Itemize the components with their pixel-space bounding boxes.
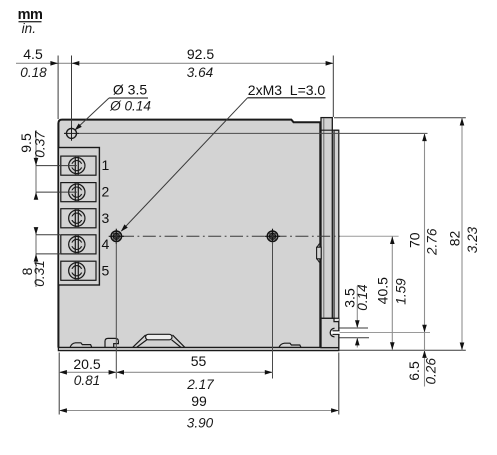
screw 3 [69, 209, 85, 227]
hole M3 right drop line [272, 242, 274, 379]
dim 82 [461, 118, 463, 350]
svg-text:3.64: 3.64 [187, 65, 214, 80]
extension line hole H0 [71, 56, 73, 127]
svg-text:1.59: 1.59 [394, 278, 409, 305]
svg-text:Ø 3.5: Ø 3.5 [113, 82, 147, 98]
dim 3.5 slot [356, 286, 358, 328]
bottom clip [105, 338, 118, 347]
leader 2xM3 [122, 98, 248, 231]
terminal cell 3 [61, 209, 96, 228]
screw 4 [69, 236, 85, 254]
arrow 4.5 left [50, 61, 58, 66]
svg-text:5: 5 [102, 262, 110, 278]
bottom dim line 99 [59, 410, 339, 412]
screw 1 [69, 157, 85, 175]
svg-text:3.23: 3.23 [465, 226, 480, 253]
hole H0 top-left (Ø3.5) [64, 126, 79, 141]
left dim 8 line [35, 229, 37, 288]
svg-text:70: 70 [407, 232, 423, 248]
svg-text:82: 82 [447, 231, 463, 247]
arrow 4.5/92.5 shared [72, 61, 80, 66]
hole M3 left [109, 229, 124, 244]
svg-text:4: 4 [102, 236, 110, 252]
svg-text:0.37: 0.37 [33, 131, 48, 158]
svg-text:0.31: 0.31 [32, 260, 47, 286]
body outline top/left/right [58, 120, 320, 348]
svg-text:92.5: 92.5 [187, 46, 214, 62]
svg-text:6.5: 6.5 [406, 361, 422, 381]
svg-text:2.17: 2.17 [186, 377, 214, 392]
svg-text:20.5: 20.5 [73, 356, 100, 372]
bottom handle bump [133, 335, 185, 348]
DIN slot lines [333, 330, 340, 332]
main body fill [58, 120, 320, 348]
extension line right flange top [332, 56, 334, 118]
terminal cell 5 [61, 261, 96, 280]
svg-text:0.26: 0.26 [424, 358, 439, 385]
right extension bottom [340, 349, 466, 351]
terminal cell 2 [61, 183, 96, 202]
svg-text:3: 3 [102, 210, 110, 226]
bottom bump 1 [70, 343, 92, 348]
screw 5 [69, 262, 85, 280]
DIN slot arc [330, 328, 334, 337]
DIN slot opening [331, 331, 340, 335]
right extension line top (82) [334, 117, 466, 119]
svg-text:0.81: 0.81 [74, 373, 100, 388]
bottom dim line 20.5 / 55 [59, 371, 272, 373]
screw 2 [69, 183, 85, 201]
svg-text:55: 55 [191, 353, 207, 369]
right extension slot center [340, 332, 431, 334]
bottom extension lines [58, 353, 60, 415]
flange inner line [323, 118, 325, 347]
svg-text:3.90: 3.90 [187, 415, 214, 430]
leader dia3.5 [76, 98, 110, 130]
terminal cell 4 [61, 235, 96, 254]
svg-text:2xM3 L=3.0: 2xM3 L=3.0 [248, 82, 326, 98]
svg-text:1: 1 [102, 157, 110, 173]
svg-text:0.18: 0.18 [20, 65, 47, 80]
right flange strip A [321, 118, 332, 319]
bottom bump 2 [279, 343, 301, 347]
hole M3 left drop line [115, 242, 117, 379]
centerline through M3 holes [121, 235, 340, 237]
svg-text:2.76: 2.76 [424, 228, 439, 256]
extension line body left top [57, 56, 59, 120]
svg-text:0.14: 0.14 [355, 284, 370, 311]
dim 70 / 6.5 [424, 133, 426, 386]
bottom right tab [321, 318, 339, 347]
hole M3 right [265, 229, 280, 244]
left dim 9.5 line [35, 130, 37, 197]
svg-text:99: 99 [191, 393, 207, 409]
side latch [317, 244, 320, 263]
terminal cell 1 [61, 156, 96, 175]
top dimension line 4.5 / 92.5 [16, 62, 333, 64]
svg-text:4.5: 4.5 [23, 46, 43, 62]
dim 40.5 [391, 236, 393, 350]
terminal block outer box [58, 148, 99, 286]
right extension slot bottom [340, 337, 370, 339]
svg-text:Ø 0.14: Ø 0.14 [109, 99, 151, 114]
right outer strip B [334, 130, 339, 347]
baseplate bottom strip [58, 347, 338, 350]
svg-text:40.5: 40.5 [374, 277, 390, 304]
right extension slot top [340, 327, 369, 329]
centerline extension right [340, 235, 399, 237]
groove line from hole H1 to right [64, 132, 428, 134]
tab step notch [335, 319, 339, 321]
svg-text:in.: in. [22, 21, 36, 36]
arrow 92.5 right [326, 61, 334, 66]
strip B top notch line [322, 129, 339, 131]
svg-text:2: 2 [102, 184, 110, 200]
